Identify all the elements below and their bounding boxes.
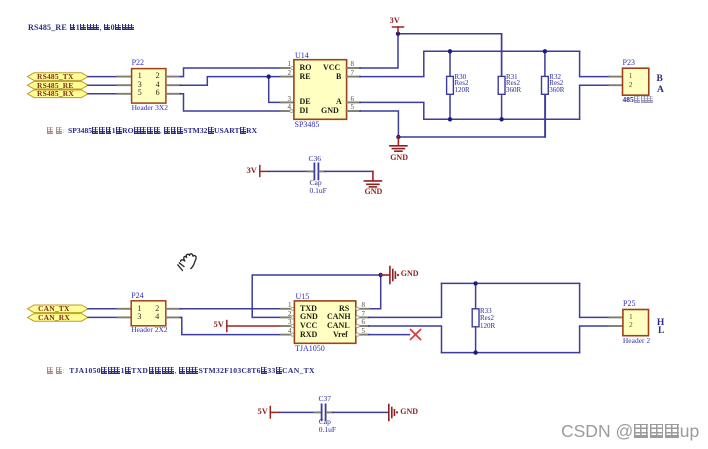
- label RS485_RX: [37, 90, 74, 98]
- hand cursor: [178, 254, 196, 271]
- wire CANH to rail: [369, 283, 442, 317]
- wire VCC to 3V: [360, 34, 398, 68]
- wire RE to DE tie: [269, 77, 281, 103]
- wire P22.4 to U14 RE: [180, 77, 281, 86]
- ground symbol GND2 horizontal: [381, 267, 399, 284]
- resistor R30: [447, 51, 454, 119]
- U15 pin 5 Vref: [356, 333, 369, 336]
- P24 pin digits left: [137, 305, 141, 322]
- connector P24 body: [131, 301, 166, 326]
- label 0.1uF C36: [310, 187, 327, 195]
- U14 pin 2 RE: [281, 76, 294, 78]
- U15 pin name CANH: [327, 313, 351, 322]
- label 0.1uF C37: [319, 426, 336, 434]
- junction 3V: [396, 32, 400, 36]
- wire GND to RS: [369, 275, 381, 309]
- U15 pin name RXD: [300, 331, 317, 340]
- title note RS485_RE: [28, 24, 135, 33]
- U15 pin name Vref: [333, 331, 348, 340]
- U14 pin name RE: [300, 73, 311, 82]
- net label B: [657, 74, 663, 84]
- U14 pin 7 B: [347, 76, 360, 78]
- port RS485_TX: [28, 73, 89, 81]
- label CAN_TX: [38, 305, 70, 313]
- U15 pin name RS: [339, 305, 349, 314]
- note 2: [47, 367, 315, 375]
- resistor R32: [542, 51, 549, 137]
- wire CAN_RX to P24: [88, 316, 118, 318]
- U14 pin 3 DE: [281, 101, 294, 103]
- label Cap C36: [310, 179, 322, 187]
- net label H: [657, 318, 664, 328]
- power label 3V top: [390, 16, 400, 25]
- label RS485_RE: [37, 82, 74, 90]
- U15 pin name VCC: [300, 322, 317, 331]
- wire P22.6 to U14 DI: [180, 94, 281, 111]
- P24 pin digits right: [155, 305, 159, 322]
- P24 pin 4: [166, 316, 181, 318]
- connector P22 body: [132, 69, 166, 104]
- label 485 terminal: [623, 96, 654, 104]
- label P23: [623, 59, 635, 68]
- wire P24.4 to U15 RXD: [180, 317, 281, 334]
- U14 pin 8 VCC: [347, 67, 360, 69]
- P22 pin digits left: [138, 72, 142, 98]
- U15 pin 2 GND: [281, 316, 294, 319]
- P24 pin 3: [118, 316, 132, 318]
- label SP3485: [295, 121, 320, 130]
- wire A to rail: [360, 102, 424, 119]
- wire A rail: [424, 118, 580, 120]
- junction R30 top: [448, 49, 452, 53]
- U14 pin 6 A: [347, 101, 360, 103]
- label Cap C37: [319, 418, 331, 426]
- junction R32 top: [543, 49, 547, 53]
- wire CANL rail to P25.2: [580, 326, 610, 353]
- op-amp U14 body SP3485: [294, 60, 347, 120]
- wire CANL rail: [442, 352, 580, 354]
- P22 pin digits right: [156, 72, 160, 98]
- wire GND run to R32: [398, 94, 545, 137]
- resistor labels R33: [480, 308, 495, 330]
- wire CANH rail to P25.1: [580, 283, 610, 317]
- net label L: [658, 326, 664, 336]
- U14 pin 5 GND: [347, 110, 360, 112]
- power label 3V at C36: [247, 166, 257, 175]
- U14 pin 4 DI: [281, 109, 294, 112]
- label GND at C37: [400, 408, 418, 417]
- wire CAN_TX to P24: [88, 308, 118, 310]
- wire 5V to C37: [280, 411, 315, 413]
- power label 5V at U15: [214, 320, 224, 329]
- P23 pin digits: [629, 72, 633, 89]
- wire 3V to C36: [269, 170, 308, 172]
- wire Vref stub: [369, 334, 410, 336]
- U14 pin name RO: [300, 64, 312, 73]
- ground symbol GND1: [390, 137, 407, 151]
- P22 pin 5: [118, 93, 132, 95]
- label GND at C36: [365, 188, 383, 197]
- label Header 2: [623, 337, 650, 345]
- wire 3V to R31: [398, 34, 502, 77]
- wire C37 to GND: [333, 411, 388, 413]
- P23 pin 1: [610, 76, 623, 78]
- P22 pin 3: [118, 84, 132, 86]
- port RS485_RE: [28, 81, 89, 89]
- label P22: [132, 59, 144, 68]
- label U15: [296, 293, 310, 302]
- no-ERC cross: [411, 330, 421, 340]
- wire CANH rail: [442, 282, 580, 284]
- U15 pin 7 CANH: [356, 316, 369, 319]
- wire A rail to P23.2: [580, 85, 610, 119]
- label GND top: [390, 154, 408, 163]
- wire RS485_TX to P22: [88, 76, 118, 78]
- power 5V to VCC: [227, 321, 281, 332]
- U15 pin numbers right: [362, 301, 366, 335]
- P22 pin 4: [166, 84, 180, 86]
- junction R30 bottom: [448, 117, 452, 121]
- power 5V at C37: [270, 407, 279, 419]
- wire B to rail: [360, 51, 424, 76]
- P23 pin 2: [610, 84, 623, 86]
- U15 pin name CANL: [327, 322, 350, 331]
- U14 pin numbers left: [286, 60, 291, 77]
- port CAN_RX: [28, 314, 89, 322]
- U14 pin name VCC: [323, 64, 340, 73]
- P22 pin 6: [166, 93, 180, 95]
- U15 pin 3 VCC: [281, 324, 294, 327]
- wire U15 GND up and over: [252, 275, 381, 317]
- port RS485_RX: [28, 90, 89, 98]
- wire C36 to GND: [325, 170, 373, 172]
- label CAN_RX: [38, 314, 70, 322]
- label C36: [309, 155, 322, 163]
- P25 pin 1: [610, 316, 623, 318]
- P22 pin 1: [118, 76, 132, 78]
- U14 pin 1 RO: [281, 66, 294, 69]
- wire CANL to rail: [369, 326, 442, 353]
- wire RS485_RX to P22: [88, 93, 118, 95]
- U14 pin name B: [336, 73, 341, 82]
- junction R33 top: [473, 281, 477, 285]
- wire U14 GND down: [360, 111, 398, 137]
- power label 5V at C37: [258, 407, 268, 416]
- U15 pin 6 CANL: [356, 324, 369, 327]
- P25 pin digits: [629, 313, 633, 330]
- U14 pin name GND: [321, 107, 339, 116]
- label RS485_TX: [37, 73, 74, 81]
- junction RE/DE: [267, 74, 271, 78]
- watermark CSDN: [561, 422, 699, 441]
- resistor labels R30: [455, 74, 470, 93]
- U15 pin numbers left: [287, 301, 292, 335]
- capacitor C36: [308, 163, 325, 179]
- ground symbol at C36: [364, 171, 381, 187]
- wire B rail to P23.1: [580, 51, 610, 76]
- label Header 3X2: [132, 104, 168, 112]
- resistor R33: [472, 283, 479, 352]
- note 1: [47, 127, 257, 135]
- U14 pin numbers right: [351, 60, 355, 77]
- connector P25 body: [623, 310, 649, 336]
- resistor R31: [498, 34, 505, 120]
- U15 pin name TXD: [300, 305, 317, 314]
- label P24: [131, 292, 143, 301]
- U15 pin 1 TXD: [281, 307, 294, 310]
- P24 pin 1: [118, 308, 132, 310]
- label GND2: [401, 270, 419, 279]
- transceiver U15 body TJA1050: [294, 301, 355, 343]
- junction GND net: [379, 273, 383, 277]
- label P25: [623, 300, 635, 309]
- resistor labels R31: [506, 74, 521, 93]
- connector P23 body: [623, 68, 649, 95]
- label U14: [295, 52, 309, 61]
- port CAN_TX: [28, 305, 89, 313]
- ground symbol at C37 horizontal: [389, 405, 398, 421]
- capacitor C37: [315, 404, 334, 420]
- U14 pin name DI: [300, 107, 309, 116]
- junction R31 bottom: [499, 117, 503, 121]
- junction R33 bottom: [473, 350, 477, 354]
- resistor labels R32: [549, 74, 564, 93]
- label Header 2X2: [131, 326, 167, 334]
- P24 pin 2: [166, 308, 181, 310]
- net label A: [657, 85, 664, 95]
- U14 pin name DE: [300, 98, 311, 107]
- label TJA1050: [295, 345, 325, 354]
- U15 pin name GND: [300, 313, 318, 322]
- wire P24.2 to U15 TXD: [180, 308, 281, 310]
- wire P22.2 to U14 RO: [180, 68, 281, 77]
- P25 pin 2: [610, 325, 623, 327]
- wire B rail: [424, 50, 580, 52]
- P22 pin 2: [166, 76, 180, 78]
- power 3V at C36: [260, 166, 269, 177]
- label C37: [319, 395, 332, 403]
- wire RS485_RE to P22: [88, 84, 118, 86]
- U14 pin name A: [336, 98, 342, 107]
- power 3V symbol: [393, 27, 404, 33]
- junction GND: [396, 135, 400, 139]
- U15 pin 4 RXD: [281, 333, 294, 336]
- U15 pin 8 RS: [356, 307, 369, 310]
